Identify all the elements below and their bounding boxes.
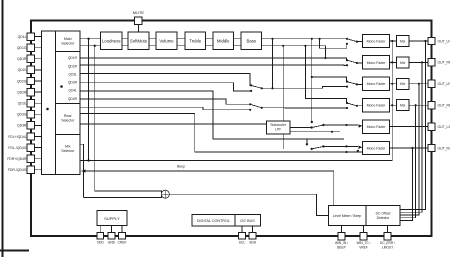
wire: [35, 102, 42, 104]
wire: [99, 225, 101, 232]
node junction: [271, 87, 273, 89]
wire: [409, 61, 428, 63]
svg-text:WIN_TC /: WIN_TC /: [357, 241, 371, 245]
node junction: [391, 61, 393, 63]
node junction: [391, 40, 393, 42]
node switch F5sel: [311, 121, 313, 123]
svg-text:FDR-/QD4G: FDR-/QD4G: [8, 168, 27, 172]
svg-text:Mono Fader: Mono Fader: [367, 146, 387, 150]
wire: [400, 84, 419, 215]
svg-text:DC_ERR /: DC_ERR /: [380, 241, 395, 245]
svg-text:BEEP: BEEP: [337, 245, 346, 249]
wire: [55, 31, 57, 175]
node junction: [271, 38, 273, 40]
svg-text:QD3R: QD3R: [68, 81, 78, 85]
wire: [84, 194, 162, 197]
node junction: [282, 123, 284, 125]
node junction: [345, 124, 347, 126]
svg-text:SUPPLY: SUPPLY: [104, 216, 120, 221]
wire: [323, 87, 348, 89]
wire: [35, 47, 42, 49]
pin QD2L: [27, 66, 34, 73]
wire: [35, 113, 42, 115]
node junction: [319, 38, 321, 40]
svg-text:Treble: Treble: [189, 38, 202, 43]
wire: [400, 62, 422, 212]
svg-text:WIN_IN /: WIN_IN /: [335, 241, 348, 245]
wire: [290, 131, 340, 133]
node junction: [415, 104, 417, 106]
wire: [80, 99, 250, 104]
wire: [80, 41, 392, 161]
node junction: [324, 57, 326, 59]
svg-text:Volume: Volume: [159, 38, 174, 43]
node junction: [94, 45, 96, 47]
wire: [177, 45, 185, 47]
svg-text:GND: GND: [108, 240, 116, 244]
svg-text:Level Meter / Beep: Level Meter / Beep: [333, 214, 362, 218]
wire: [35, 80, 42, 82]
block input/mix selector: [42, 31, 81, 175]
pin VDD: [97, 232, 104, 239]
svg-text:QD3L: QD3L: [18, 102, 27, 106]
svg-text:Mix: Mix: [65, 145, 71, 149]
node switch F1: [346, 38, 348, 40]
wire: [357, 105, 363, 107]
svg-text:OUT_L2: OUT_L2: [438, 125, 450, 129]
wire: [80, 64, 347, 67]
svg-text:MUTE: MUTE: [133, 10, 145, 15]
wire: [400, 105, 416, 218]
svg-text:FDR+/QD4R: FDR+/QD4R: [7, 157, 27, 161]
svg-text:OUT_RR: OUT_RR: [438, 104, 450, 108]
wire: [234, 45, 242, 47]
wire: [35, 36, 42, 38]
svg-text:DIGITAL CONTROL: DIGITAL CONTROL: [197, 219, 230, 223]
pin SDA: [249, 232, 256, 239]
wire: [390, 40, 397, 42]
pin OUT_LR: [428, 80, 435, 87]
svg-text:SoftMute: SoftMute: [130, 38, 148, 43]
pin FDL+/QD4L: [27, 133, 34, 140]
block Mono Fader 4: [363, 99, 390, 112]
wire: [390, 83, 397, 85]
wire: [80, 123, 267, 125]
svg-text:Mono Fader: Mono Fader: [367, 61, 387, 65]
svg-text:QD1R: QD1R: [17, 57, 27, 61]
svg-text:Middle: Middle: [217, 38, 230, 43]
svg-text:QD3G: QD3G: [17, 113, 27, 117]
wire: [206, 38, 214, 40]
wire: [35, 69, 42, 71]
pin OUT_RR: [428, 102, 435, 109]
wire: [56, 134, 81, 136]
summing node: [161, 190, 169, 198]
svg-text:OUT_R2: OUT_R2: [438, 146, 450, 150]
wire: [206, 45, 214, 47]
wire: [80, 74, 251, 86]
wire: [390, 61, 397, 63]
wire: [262, 46, 326, 58]
wire: [306, 139, 308, 144]
wire: [390, 126, 428, 128]
wire: [272, 39, 274, 89]
wire: [363, 226, 365, 233]
svg-text:Loudness: Loudness: [102, 38, 121, 43]
wire: [365, 206, 367, 226]
block Treble: [185, 32, 206, 50]
block Mono Fader 2: [363, 56, 390, 69]
wire: [390, 147, 428, 149]
wire: [323, 145, 358, 147]
wire: [94, 46, 96, 191]
wire: [357, 83, 363, 85]
svg-text:Mix: Mix: [400, 61, 406, 65]
wire: [82, 169, 86, 173]
wire: [35, 58, 42, 60]
svg-text:Selector: Selector: [61, 42, 75, 46]
block Mono Fader 5: [363, 120, 390, 133]
wire: [409, 104, 428, 106]
svg-text:Beep: Beep: [177, 165, 185, 169]
pin FDR-/QD4G: [27, 166, 34, 173]
wire: [80, 45, 101, 47]
svg-text:OUT_LR: OUT_LR: [438, 82, 450, 86]
wire: [282, 46, 284, 149]
svg-text:QD2L: QD2L: [18, 68, 27, 72]
svg-text:SCL: SCL: [239, 240, 246, 244]
svg-text:Mix: Mix: [400, 39, 406, 43]
wire: [234, 38, 242, 40]
svg-text:QD4L: QD4L: [68, 89, 77, 93]
wire: [56, 103, 81, 105]
wire: [56, 51, 81, 53]
IC boundary: [31, 21, 432, 237]
wire: [305, 46, 346, 103]
wire: [358, 146, 362, 150]
pin QD1G: [27, 44, 34, 51]
svg-text:OUT_RF: OUT_RF: [438, 61, 450, 65]
pin QD2R: [27, 88, 34, 95]
node junction: [87, 159, 89, 161]
svg-text:QD4R: QD4R: [68, 97, 78, 101]
node switch F4: [346, 102, 348, 104]
svg-text:Subwoofer: Subwoofer: [270, 123, 287, 127]
pin MUTE: [135, 17, 143, 25]
pin OUT_R2: [428, 144, 435, 151]
svg-text:QD2G: QD2G: [17, 79, 27, 83]
wire: [82, 171, 334, 206]
svg-text:Detector: Detector: [377, 216, 391, 220]
wire: [35, 158, 42, 160]
node junction: [345, 151, 347, 153]
wire: [390, 104, 397, 106]
block Subwoofer LPF: [267, 121, 291, 134]
block Mono Fader 1: [363, 34, 390, 47]
wire: [357, 41, 363, 43]
wire: [177, 38, 185, 40]
pin OUT_LF: [428, 37, 435, 44]
pin QD1L: [27, 33, 34, 40]
wire: [122, 38, 128, 40]
wire: [80, 58, 346, 60]
wire: [121, 225, 123, 232]
wire: [400, 41, 425, 210]
wire: [358, 124, 362, 128]
wire: [35, 91, 42, 93]
svg-text:QD1R: QD1R: [68, 56, 78, 60]
pin SCL: [239, 232, 246, 239]
node junction: [345, 145, 347, 147]
wire: [262, 38, 348, 40]
block DIGITAL CONTROL: [192, 215, 261, 226]
block SUPPLY: [97, 211, 127, 226]
svg-text:VREF: VREF: [359, 245, 368, 249]
pin FDR+/QD4R: [27, 155, 34, 162]
svg-text:Mix: Mix: [400, 104, 406, 108]
pin OUT_L2: [428, 123, 435, 130]
svg-text:OUT_LF: OUT_LF: [438, 39, 450, 43]
svg-text:QD3R: QD3R: [17, 124, 27, 128]
node switch S1: [250, 84, 252, 86]
wire: [290, 127, 312, 129]
wire: [122, 45, 128, 47]
wire: [252, 226, 254, 233]
block Bass: [241, 32, 262, 50]
block Loudness: [101, 32, 123, 50]
wire: [169, 194, 328, 215]
wire: [35, 124, 42, 126]
node switch F6sel: [306, 143, 308, 145]
wire: [311, 39, 313, 122]
wire: [409, 40, 428, 42]
node junction: [304, 45, 306, 47]
node junction: [311, 76, 313, 78]
wire: [262, 107, 347, 109]
wire: [80, 144, 84, 197]
node junction: [331, 131, 333, 133]
wire: [400, 148, 412, 220]
svg-text:FDL+/QD4L: FDL+/QD4L: [8, 135, 26, 139]
node junction: [60, 85, 63, 88]
wire: [35, 147, 42, 149]
pin FDL-/QD4G: [27, 144, 34, 151]
node junction: [46, 108, 49, 111]
node junction: [282, 45, 284, 47]
block Mono Fader 3: [363, 77, 390, 90]
svg-text:QD1G: QD1G: [17, 46, 27, 50]
node junction: [391, 104, 393, 106]
svg-text:Rear: Rear: [64, 114, 73, 118]
node junction: [357, 150, 359, 152]
pin QD3R: [27, 122, 34, 129]
wire: [409, 83, 428, 85]
svg-text:QD3L: QD3L: [68, 73, 77, 77]
svg-text:CREF: CREF: [118, 240, 127, 244]
wire: [80, 107, 250, 110]
svg-text:Mono Fader: Mono Fader: [367, 82, 387, 86]
svg-text:I2C BUS: I2C BUS: [240, 219, 255, 223]
wire: [320, 39, 347, 48]
svg-text:QD1L: QD1L: [18, 35, 27, 39]
wire: [80, 83, 251, 91]
block Mix 1: [397, 36, 410, 47]
pin DC_ERR /LMOUT: [384, 232, 391, 239]
wire: [357, 62, 363, 64]
node junction: [418, 83, 420, 85]
block Level Meter / Beep: [329, 206, 401, 226]
wire: [312, 77, 347, 82]
block Middle: [213, 32, 234, 50]
wire: [0, 250, 29, 252]
wire: [80, 91, 344, 139]
wire: [234, 215, 236, 226]
svg-text:Bass: Bass: [246, 38, 256, 43]
node junction: [421, 61, 423, 63]
pin WIN_IN /BEEP: [338, 232, 345, 239]
wire: [110, 225, 112, 232]
wire: [149, 38, 156, 40]
node switch F2: [346, 59, 348, 61]
wire: [35, 169, 42, 171]
block Mono Fader 6: [363, 141, 390, 154]
block Volume: [156, 32, 177, 50]
svg-text:LMOUT: LMOUT: [382, 245, 393, 249]
pin QD3G: [27, 111, 34, 118]
node switch S2: [249, 103, 251, 105]
svg-text:Mono Fader: Mono Fader: [367, 125, 387, 129]
node junction: [87, 38, 89, 40]
block Mix 2: [397, 57, 410, 68]
wire: [341, 226, 343, 233]
svg-text:Selector: Selector: [61, 119, 75, 123]
svg-text:SDA: SDA: [249, 240, 257, 244]
svg-text:VDD: VDD: [97, 240, 105, 244]
wire: [35, 136, 42, 138]
wire: [323, 124, 358, 126]
wire: [262, 87, 323, 89]
svg-text:Mono Fader: Mono Fader: [367, 104, 387, 108]
block Mix 4: [397, 100, 410, 111]
wire: [2, 0, 4, 257]
svg-text:FDL-/QD4G: FDL-/QD4G: [8, 146, 26, 150]
wire: [80, 38, 101, 40]
wire: [241, 226, 243, 233]
wire: [80, 114, 363, 152]
svg-text:QD2R: QD2R: [17, 90, 27, 94]
block SoftMute: [128, 32, 149, 50]
svg-text:QD2R: QD2R: [68, 64, 78, 68]
pin QD2G: [27, 77, 34, 84]
node junction: [311, 38, 313, 40]
pin QD3L: [27, 100, 34, 107]
pin OUT_RF: [428, 59, 435, 66]
block Mix 3: [397, 78, 410, 89]
svg-text:Mix: Mix: [400, 82, 406, 86]
svg-text:DC Offset: DC Offset: [376, 212, 391, 216]
node switch F3: [346, 81, 348, 83]
svg-text:Mono Fader: Mono Fader: [367, 39, 387, 43]
node junction: [411, 147, 413, 149]
svg-text:LPF: LPF: [275, 128, 281, 132]
pin QD1R: [27, 55, 34, 62]
node junction: [391, 83, 393, 85]
pin WIN_TC /VREF: [360, 232, 367, 239]
node junction: [424, 40, 426, 42]
pin GND: [108, 232, 115, 239]
pin CREF: [119, 232, 126, 239]
wire: [95, 191, 162, 194]
wire: [88, 39, 90, 161]
wire: [137, 24, 139, 32]
svg-text:Selector: Selector: [61, 149, 75, 153]
svg-text:Main: Main: [64, 37, 72, 41]
wire: [387, 226, 389, 233]
wire: [149, 45, 156, 47]
